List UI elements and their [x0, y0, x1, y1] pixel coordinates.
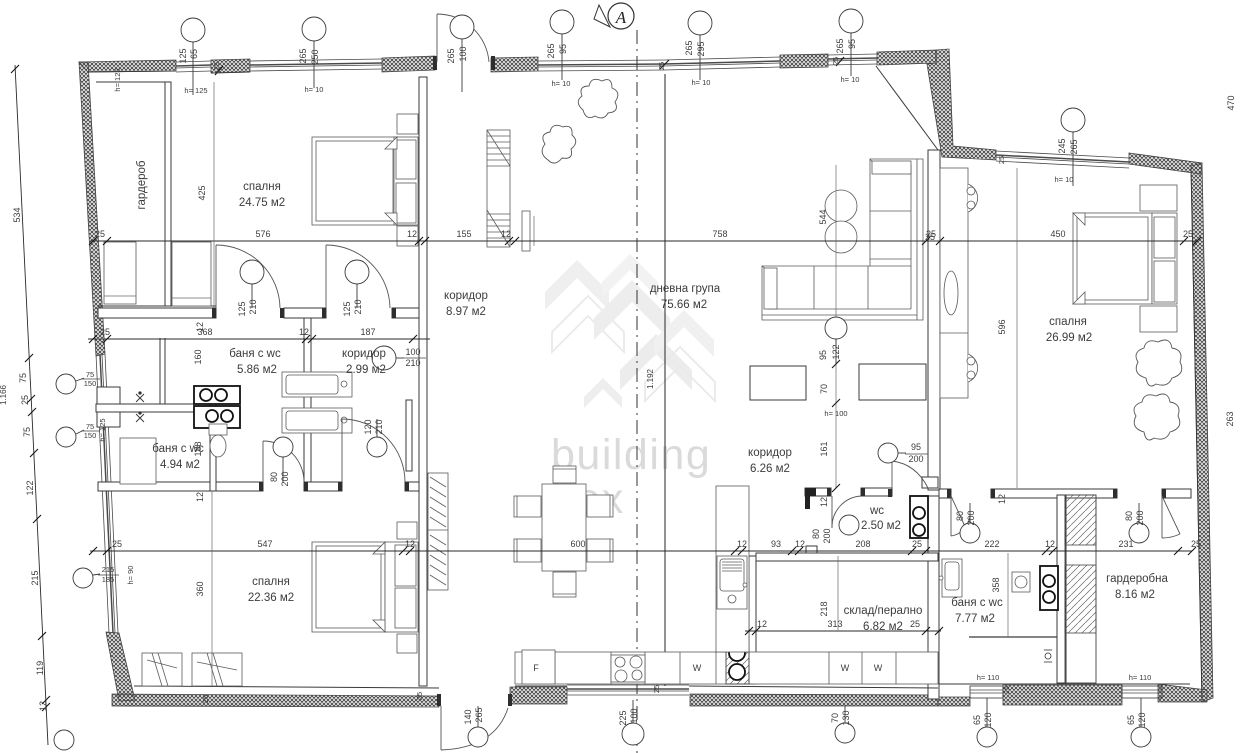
- svg-text:758: 758: [712, 229, 727, 239]
- svg-text:265: 265: [684, 40, 694, 55]
- svg-text:155: 155: [456, 229, 471, 239]
- svg-text:425: 425: [197, 185, 207, 200]
- svg-text:450: 450: [1050, 229, 1065, 239]
- svg-text:75: 75: [18, 373, 28, 383]
- svg-text:75: 75: [86, 370, 94, 379]
- diagonal step wall band: [927, 49, 996, 160]
- svg-text:склад/перално: склад/перално: [844, 605, 923, 617]
- svg-text:2.50 м2: 2.50 м2: [861, 520, 901, 532]
- double vanity baths 4.94/5.86: [194, 386, 240, 428]
- svg-text:150: 150: [84, 379, 97, 388]
- svg-text:70: 70: [830, 713, 840, 723]
- gardrob top inner line: [96, 81, 171, 83]
- h labels: [98, 68, 1151, 682]
- door bath 7.77: [951, 496, 970, 536]
- svg-text:25: 25: [1183, 229, 1193, 239]
- door circle labels: [237, 299, 1145, 543]
- bed bedroom 24.75: [312, 114, 418, 246]
- radiator ladder right of bedroom 22.36: [428, 473, 448, 590]
- wall wc2.50 bottom / sklad top: [756, 553, 938, 561]
- svg-text:25: 25: [657, 62, 666, 70]
- svg-text:93: 93: [771, 539, 781, 549]
- svg-text:100: 100: [458, 46, 468, 61]
- svg-text:265: 265: [298, 48, 308, 63]
- corridor 2.99 right pilaster: [406, 400, 412, 471]
- svg-text:h= 10: h= 10: [692, 78, 711, 87]
- kitchen bottom row: [515, 650, 938, 684]
- bottom marker circles: [54, 698, 1151, 750]
- svg-text:80: 80: [269, 472, 279, 482]
- door bedroom24.75-corridor2.99: [326, 245, 390, 308]
- svg-text:W: W: [693, 663, 702, 673]
- svg-text:576: 576: [255, 229, 270, 239]
- svg-text:гардеробна: гардеробна: [1106, 573, 1168, 585]
- svg-text:295: 295: [696, 41, 706, 56]
- wall bath5.86/corridor2.99: [304, 318, 311, 482]
- svg-text:210: 210: [248, 299, 258, 314]
- svg-text:1.192: 1.192: [646, 368, 655, 389]
- threshold block wc: [806, 546, 817, 559]
- svg-text:122: 122: [831, 344, 841, 359]
- svg-text:коридор: коридор: [748, 447, 792, 459]
- svg-text:80: 80: [811, 529, 821, 539]
- svg-text:h= 125: h= 125: [184, 86, 207, 95]
- bottom-right corner band: [1158, 684, 1207, 702]
- top wall pillar P4: [780, 54, 828, 68]
- section line A: [636, 30, 638, 753]
- svg-text:80: 80: [1124, 511, 1134, 521]
- svg-text:25: 25: [112, 539, 122, 549]
- watermark logo chevrons: [545, 254, 715, 408]
- dim row 2 ticks: [89, 547, 1196, 555]
- svg-text:140: 140: [463, 709, 473, 724]
- svg-text:12: 12: [737, 539, 747, 549]
- gardrob bottom line: [98, 305, 216, 307]
- long wall living/kitchen x928: [928, 150, 940, 490]
- svg-text:100: 100: [405, 347, 420, 357]
- svg-text:70: 70: [819, 384, 829, 394]
- window bottom bath 7.77: [970, 686, 1003, 698]
- kitchen counter island living side: [940, 168, 978, 398]
- svg-text:210: 210: [353, 299, 363, 314]
- svg-text:75.66 м2: 75.66 м2: [661, 299, 707, 311]
- svg-text:коридор: коридор: [342, 348, 386, 360]
- svg-text:210: 210: [405, 358, 420, 368]
- wall bath5.86 bottom segment a: [98, 482, 263, 491]
- vertical aux dim lines: [213, 82, 215, 308]
- stove burners: [611, 655, 645, 682]
- closet left b: [172, 242, 211, 306]
- svg-text:596: 596: [997, 319, 1007, 334]
- wall bedroom26.99 bottom segment a: [939, 489, 951, 498]
- svg-text:25: 25: [415, 692, 424, 700]
- toilet bath 4.94: [209, 424, 227, 457]
- svg-text:спалня: спалня: [1049, 316, 1087, 328]
- svg-text:75: 75: [22, 427, 32, 437]
- kitchen tall unit with sink: [716, 486, 749, 652]
- wall wc/sklad right continuation: [928, 496, 939, 699]
- svg-text:25: 25: [831, 57, 840, 65]
- bath 7.77 toilet: [1012, 572, 1030, 592]
- wall bedroom 24.75 bottom segment b: [284, 308, 326, 318]
- top wall corner pillar P5: [877, 50, 936, 65]
- bath 7.77 washbasin: [939, 559, 962, 597]
- svg-text:8.97 м2: 8.97 м2: [446, 306, 486, 318]
- wall bedroom26.99 bottom segment b: [991, 489, 1117, 498]
- step wall inner face: [876, 66, 938, 150]
- right wall inner line: [1191, 168, 1202, 700]
- svg-text:25: 25: [201, 695, 210, 703]
- svg-text:215: 215: [30, 570, 40, 585]
- svg-text:wc: wc: [869, 505, 884, 517]
- svg-text:95: 95: [558, 44, 568, 54]
- svg-text:160: 160: [193, 349, 203, 364]
- svg-text:22.36 м2: 22.36 м2: [248, 592, 294, 604]
- bath 7.77 shower line: [969, 636, 1057, 638]
- bottom band under bath 7.77: [938, 697, 970, 706]
- wall bath bottom segment b: [304, 482, 342, 491]
- poufs: [825, 190, 857, 222]
- svg-text:баня с wc: баня с wc: [229, 348, 281, 360]
- svg-text:дневна група: дневна група: [650, 283, 721, 295]
- svg-text:12: 12: [795, 539, 805, 549]
- svg-text:95: 95: [911, 442, 921, 452]
- svg-text:119: 119: [35, 661, 45, 675]
- svg-text:24.75 м2: 24.75 м2: [239, 197, 285, 209]
- svg-text:25: 25: [925, 232, 935, 242]
- furniture: [104, 79, 1182, 686]
- svg-text:100: 100: [629, 708, 639, 723]
- svg-text:4.94 м2: 4.94 м2: [160, 459, 200, 471]
- windows: [96, 54, 1162, 698]
- svg-text:125: 125: [178, 48, 188, 63]
- wall corridor bottom wc top segment a: [805, 488, 831, 496]
- bottom band under wardrobe room (between windows): [1003, 685, 1122, 705]
- top marker circles: [181, 9, 1085, 186]
- misc rotated dims: [193, 95, 1236, 616]
- svg-text:A: A: [615, 8, 627, 27]
- svg-text:8.16 м2: 8.16 м2: [1115, 589, 1155, 601]
- left sloped wall band: [79, 62, 105, 356]
- wall bath7.77/wardrobe room: [1057, 495, 1066, 683]
- window top W5: [828, 54, 877, 65]
- exterior walls: [79, 49, 1213, 707]
- bottom band left of kitchen window: [510, 687, 567, 704]
- sofa L-shape: [762, 159, 923, 320]
- svg-text:200: 200: [966, 510, 976, 525]
- svg-text:200: 200: [280, 471, 290, 486]
- svg-text:265: 265: [474, 707, 484, 722]
- svg-text:h= 10: h= 10: [305, 85, 324, 94]
- top-right corner band: [1129, 153, 1202, 174]
- svg-text:W: W: [874, 663, 883, 673]
- svg-text:F: F: [533, 663, 539, 673]
- svg-text:12: 12: [38, 701, 48, 711]
- living/corridor boundary line: [664, 74, 666, 686]
- window top W1: [176, 61, 211, 72]
- left radiator markers: [56, 374, 100, 588]
- svg-text:120: 120: [363, 419, 373, 434]
- wall bath4.94 top: [96, 404, 216, 412]
- bath niche on left wall: [97, 387, 120, 427]
- svg-text:161: 161: [819, 441, 829, 456]
- inner boundary lines along top windows: [211, 72, 250, 73]
- svg-text:65: 65: [972, 715, 982, 725]
- svg-text:544: 544: [818, 209, 828, 224]
- section A marker: [594, 3, 634, 29]
- svg-text:12: 12: [997, 494, 1007, 504]
- top circle labels (rotated): [178, 38, 1079, 154]
- door wardrobe room: [1162, 496, 1180, 538]
- small 25 labels at wall junctions: [201, 57, 1011, 703]
- svg-text:26.99 м2: 26.99 м2: [1046, 332, 1092, 344]
- door bedroom24.75-bath5.86: [216, 245, 280, 308]
- svg-text:130: 130: [841, 710, 851, 725]
- svg-text:12: 12: [407, 229, 417, 239]
- door jambs: [212, 56, 1166, 706]
- oven column with flue: [726, 637, 749, 684]
- bottom inner floor lines: [134, 686, 439, 688]
- wardrobe bedroom 22.36: [142, 653, 242, 686]
- svg-text:95: 95: [818, 350, 828, 360]
- window left sloped (bedroom 22.36): [96, 354, 118, 633]
- bath 7.77 bold fixture: [1040, 566, 1058, 610]
- svg-text:12: 12: [757, 619, 767, 629]
- window right-top (bedroom 26.99): [996, 151, 1129, 168]
- svg-text:187: 187: [360, 327, 375, 337]
- svg-text:210: 210: [374, 419, 384, 434]
- svg-text:75: 75: [86, 422, 94, 431]
- wall wc top segment b: [861, 488, 892, 496]
- svg-text:h= 90: h= 90: [126, 566, 135, 585]
- doors: [216, 14, 1180, 750]
- top-left wall band: [79, 60, 176, 72]
- svg-text:122: 122: [25, 480, 35, 495]
- wall pier TV right: [859, 364, 926, 400]
- svg-text:6.26 м2: 6.26 м2: [750, 463, 790, 475]
- svg-text:600: 600: [570, 539, 585, 549]
- junction tick marks: [215, 57, 844, 75]
- svg-text:225: 225: [618, 710, 628, 725]
- svg-text:265: 265: [546, 43, 556, 58]
- svg-text:265: 265: [1069, 139, 1079, 154]
- svg-text:12: 12: [299, 327, 309, 337]
- wall bedroom 24.75 bottom segment a: [98, 308, 216, 318]
- svg-text:W: W: [841, 663, 850, 673]
- svg-text:265: 265: [446, 48, 456, 63]
- svg-text:222: 222: [984, 539, 999, 549]
- svg-text:265: 265: [835, 38, 845, 53]
- washer dryer bath 5.86: [282, 372, 352, 433]
- svg-text:125: 125: [237, 301, 247, 316]
- svg-text:547: 547: [257, 539, 272, 549]
- svg-text:25: 25: [212, 62, 221, 70]
- plumbing cross symbols: [136, 392, 144, 422]
- corridor wardrobe shelves: [487, 130, 510, 247]
- closet left a (bedroom 24.75): [104, 242, 136, 304]
- svg-text:1.166: 1.166: [0, 384, 8, 405]
- svg-text:245: 245: [1057, 138, 1067, 153]
- plants bedroom 26.99: [1136, 340, 1182, 386]
- svg-text:65: 65: [189, 49, 199, 59]
- svg-text:218: 218: [819, 601, 829, 616]
- svg-text:358: 358: [991, 577, 1001, 592]
- svg-text:95: 95: [847, 39, 857, 49]
- svg-text:коридор: коридор: [444, 290, 488, 302]
- dim row 313 line: [745, 630, 941, 632]
- svg-text:25: 25: [20, 395, 30, 405]
- svg-text:185: 185: [102, 575, 115, 584]
- svg-text:188: 188: [193, 441, 203, 456]
- top wall pillar P1: [211, 59, 250, 73]
- svg-text:208: 208: [855, 539, 870, 549]
- bottom band kitchen-to-bath: [690, 694, 938, 706]
- svg-text:80: 80: [955, 511, 965, 521]
- svg-text:120: 120: [983, 712, 993, 727]
- svg-text:h= 100: h= 100: [824, 409, 847, 418]
- dim row 1 ticks: [89, 237, 1201, 245]
- wall gardrob right: [165, 82, 171, 306]
- svg-text:25: 25: [95, 229, 105, 239]
- svg-text:263: 263: [1225, 411, 1235, 426]
- svg-text:250: 250: [310, 49, 320, 64]
- mid circle labels: [818, 344, 841, 507]
- svg-text:25: 25: [1191, 539, 1201, 549]
- svg-text:231: 231: [1118, 539, 1133, 549]
- svg-text:12: 12: [1045, 539, 1055, 549]
- bed bedroom 26.99: [1073, 185, 1177, 332]
- svg-text:534: 534: [12, 207, 22, 222]
- plants living room: [578, 79, 618, 118]
- bed bedroom 22.36: [312, 522, 418, 653]
- svg-text:h= 110: h= 110: [977, 673, 1000, 682]
- wall bedroom26.99 bottom segment c: [1162, 489, 1191, 498]
- svg-text:25: 25: [910, 619, 920, 629]
- svg-text:25: 25: [1002, 686, 1011, 694]
- window top W2: [250, 59, 382, 71]
- svg-text:спалня: спалня: [243, 181, 281, 193]
- bottom wall bedroom 22.36: [112, 694, 439, 707]
- svg-text:h= 10: h= 10: [552, 79, 571, 88]
- dim row 2 numbers: [112, 539, 1201, 549]
- window bottom kitchen: [567, 685, 689, 695]
- svg-text:h= 125: h= 125: [113, 68, 122, 91]
- dim row 368 line: [88, 338, 430, 340]
- dim row 1 numbers: [95, 229, 1193, 239]
- door bath5.86 from bedroom22.36: [263, 441, 304, 482]
- svg-text:2.99 м2: 2.99 м2: [346, 364, 386, 376]
- svg-text:гардероб: гардероб: [136, 160, 148, 209]
- svg-text:200: 200: [1135, 510, 1145, 525]
- svg-text:h= 125: h= 125: [98, 418, 107, 441]
- top wall pillar P3: [491, 57, 538, 72]
- svg-text:7.77 м2: 7.77 м2: [955, 613, 995, 625]
- svg-text:200: 200: [822, 528, 832, 543]
- svg-text:h= 110: h= 110: [1129, 673, 1152, 682]
- svg-text:5.86 м2: 5.86 м2: [237, 364, 277, 376]
- door terrace bedroom22.36: [441, 706, 508, 750]
- svg-text:12: 12: [819, 497, 829, 507]
- top wall pillar P2: [382, 56, 435, 72]
- svg-text:360: 360: [195, 581, 205, 596]
- top wall inner line (gardrob/bedroom): [88, 71, 176, 72]
- svg-text:313: 313: [827, 619, 842, 629]
- shower symbol: [1044, 650, 1052, 662]
- bathtub bath 4.94: [120, 438, 156, 484]
- wc 2.50 fixture: [910, 496, 928, 538]
- svg-text:баня с wc: баня с wc: [951, 597, 1003, 609]
- door wc 2.50: [832, 496, 861, 528]
- svg-text:200: 200: [908, 454, 923, 464]
- svg-text:470: 470: [1226, 95, 1236, 110]
- svg-text:25: 25: [997, 156, 1006, 164]
- svg-text:12: 12: [195, 322, 205, 332]
- dim row 313 numbers: [757, 619, 920, 629]
- radiator labels: [84, 370, 115, 584]
- wall bath4.94/5.86 divider: [210, 404, 216, 491]
- svg-text:h= 10: h= 10: [1055, 175, 1074, 184]
- dim row 1 line: [90, 240, 1197, 242]
- black corner L at wc: [805, 488, 816, 496]
- dim row 2 line: [90, 550, 1192, 552]
- right exterior wall band: [1191, 163, 1213, 702]
- mid passage circle: [825, 317, 847, 364]
- console corridor: [522, 211, 530, 251]
- left column rotated numbers: [0, 207, 48, 711]
- wall stub x160: [159, 338, 161, 404]
- bottom-left corner band: [106, 632, 135, 701]
- door marker circles: [240, 260, 1149, 543]
- svg-text:215: 215: [102, 565, 115, 574]
- svg-text:120: 120: [1137, 712, 1147, 727]
- left dim column: [15, 65, 48, 745]
- sklad left wall: [749, 556, 756, 684]
- dim row 368 numbers: [100, 327, 376, 337]
- svg-text:h= 10: h= 10: [841, 75, 860, 84]
- wall bedroom 24.75 bottom segment c: [392, 308, 419, 318]
- window bottom wardrobe room: [1122, 686, 1162, 698]
- entrance door top: [437, 14, 489, 62]
- svg-text:25: 25: [652, 685, 661, 693]
- svg-text:12: 12: [501, 229, 511, 239]
- window top W4: [664, 57, 780, 70]
- svg-text:150: 150: [84, 431, 97, 440]
- svg-text:12: 12: [195, 492, 205, 502]
- wall bath bottom segment c: [405, 482, 419, 491]
- dining table: [514, 466, 613, 597]
- door corridor-bedroom26.99: [892, 461, 928, 488]
- door corridor2.99-bedroom22.36: [342, 419, 405, 482]
- svg-text:125: 125: [342, 301, 352, 316]
- svg-text:спалня: спалня: [252, 576, 290, 588]
- door frame block wc right: [922, 477, 938, 488]
- wall long vertical corridor-left (bedroom 24.75 right wall): [419, 77, 427, 686]
- svg-text:12: 12: [405, 539, 415, 549]
- bottom circle labels: [463, 707, 1147, 727]
- svg-text:25: 25: [100, 327, 110, 337]
- svg-text:25: 25: [912, 539, 922, 549]
- svg-text:6.82 м2: 6.82 м2: [863, 621, 903, 633]
- svg-text:65: 65: [1126, 715, 1136, 725]
- wardrobe room tall wardrobe: [1065, 495, 1096, 683]
- window top W3: [538, 60, 664, 71]
- wall pier TV left: [750, 366, 806, 400]
